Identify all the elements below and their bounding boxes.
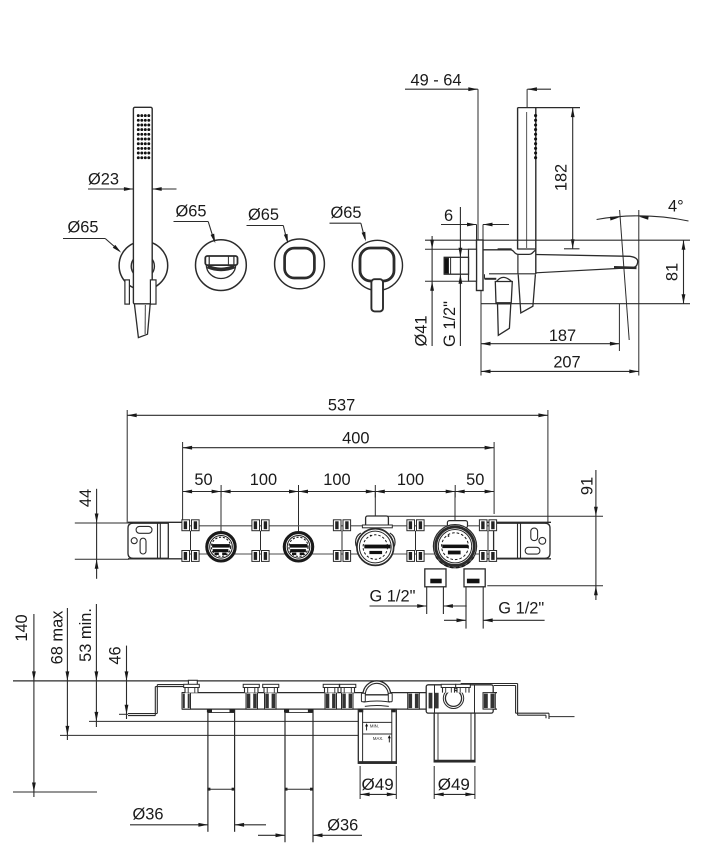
screw housing 2a top view xyxy=(243,684,259,692)
extension line wand axis xyxy=(526,89,528,107)
dimension Ø23 line left segment xyxy=(88,188,133,190)
extension line into valve at x=375.3 xyxy=(374,492,376,541)
valve 4 cartridge circle top view xyxy=(445,690,461,706)
dimension 44 arrow bottom outside xyxy=(95,559,99,569)
pipe clamp 3 on rail xyxy=(333,520,350,562)
extension line wall plane lower xyxy=(480,291,482,376)
spout tip vertical reference line xyxy=(638,210,640,376)
dimension 182 line xyxy=(572,108,574,249)
dimension 6 line left xyxy=(441,224,477,226)
dimension Ø23 line right segment xyxy=(152,188,176,190)
dimension 182 arrow top xyxy=(571,108,575,118)
dimension 49-64 line right xyxy=(527,88,551,90)
rough-in rail top edge left segment xyxy=(128,521,184,523)
label Ø65 trim2 underline xyxy=(247,225,284,227)
extension line plate front xyxy=(476,225,478,241)
spout axis line tilted 4 degrees xyxy=(620,210,630,340)
extension line 400 right xyxy=(493,442,495,514)
dimension Ø36 line pipe1 left xyxy=(130,824,208,826)
svg-text:400: 400 xyxy=(342,429,369,447)
pipe 1 collar mark right xyxy=(230,709,235,712)
dimension Ø36 line pipe2 left xyxy=(258,834,285,836)
trim 1 diverter escutcheon circle xyxy=(196,240,247,291)
dimension Ø36 line pipe1 right xyxy=(235,824,266,826)
box3 top collar mark left xyxy=(359,709,363,712)
pipe clamp 4 on rail xyxy=(407,520,424,562)
plaster guard box 3 bottom thick edge xyxy=(358,761,396,763)
valve 2 shut-off cartridge front view xyxy=(284,533,312,561)
screw housing 3b top view xyxy=(340,684,356,692)
row arrow right-pointing at tick 221.1 xyxy=(212,490,222,494)
right bracket screw hole xyxy=(539,537,546,544)
svg-text:50: 50 xyxy=(194,471,212,489)
trim 1 diverter knob bar xyxy=(205,256,237,265)
valve 4 mixer inner circle xyxy=(438,530,471,563)
valve 4 small slot bar xyxy=(448,551,461,555)
svg-text:Ø65: Ø65 xyxy=(248,206,279,224)
valve 3 small slot bar xyxy=(369,551,382,554)
svg-text:Ø65: Ø65 xyxy=(331,204,362,222)
extension line 187 xyxy=(618,304,620,351)
dimension 182 arrow bottom xyxy=(571,239,575,249)
extension line into valve at x=221 xyxy=(220,492,222,542)
extension line Ø49 v4 right xyxy=(474,766,476,799)
hand shower spray nozzle dots xyxy=(137,114,150,159)
valve 3 dome left ear xyxy=(361,693,365,702)
valve 4 mixer rosette outer circle xyxy=(433,525,476,568)
left Z bracket end tab xyxy=(188,680,197,686)
svg-text:G 1/2": G 1/2" xyxy=(370,588,416,606)
row tick line at x=298.5 xyxy=(298,485,300,498)
valve 3 dome top view xyxy=(363,681,391,695)
dimension 140 line xyxy=(33,614,35,797)
row tick line at x=455.2 xyxy=(454,485,456,498)
clamp 5 top view xyxy=(483,693,495,710)
screw housing 1 top view xyxy=(184,684,200,692)
rough-in rail bottom edge left segment xyxy=(128,558,184,560)
spout aerator slot xyxy=(614,266,637,269)
label Ø65 trim1 underline xyxy=(174,221,209,223)
svg-text:100: 100 xyxy=(323,471,350,489)
spout holder bracket top profile xyxy=(483,250,536,255)
rough-in guard rim top line xyxy=(366,515,603,517)
lever handle body bottom thick line xyxy=(496,302,512,304)
trim 2 escutcheon circle xyxy=(275,239,325,289)
G 1/2 inlet nipple xyxy=(444,257,468,274)
label Ø65 holder underline leader xyxy=(63,238,105,240)
bottom reference line for dimension 81 xyxy=(481,303,690,305)
clamp 2b top view xyxy=(265,693,277,710)
label Ø65 trim3 leader xyxy=(361,223,365,238)
extension line Ø49 v3 left xyxy=(359,766,361,799)
svg-text:G 1/2": G 1/2" xyxy=(441,301,459,347)
valve 4 cartridge outer circle top view xyxy=(443,688,463,708)
extension line into valve at x=298.5 xyxy=(298,492,300,542)
dimension Ø41 arrow top xyxy=(430,240,434,250)
hose pipe 1 top view xyxy=(207,709,209,832)
row arrow right-pointing at tick 298.5 xyxy=(289,490,299,494)
row arrow left-pointing at tick 298.5 xyxy=(299,490,309,494)
wand side view nozzle dots xyxy=(534,114,537,159)
182 dimension bottom reference tick xyxy=(564,248,580,250)
MAX level line in plaster guard xyxy=(363,733,392,735)
spout tip rounded end xyxy=(630,256,638,267)
wand lower tip side view xyxy=(518,275,535,313)
label Ø65 trim3 underline xyxy=(330,222,361,224)
dimension 400 line xyxy=(183,447,495,449)
svg-text:Ø41: Ø41 xyxy=(413,316,431,347)
valve 4 block inner line right xyxy=(474,685,476,713)
dimension 6 line right xyxy=(483,224,509,226)
holder bracket bottom edge xyxy=(489,273,536,275)
dimension Ø23 arrow right-pointing xyxy=(124,187,134,191)
valve 4 cold port block xyxy=(464,569,485,587)
left bracket divider line b xyxy=(159,523,161,558)
trim 1 diverter knob bowl semicircle xyxy=(206,265,235,279)
screw housing 3a top view xyxy=(323,684,339,692)
extension line rail top xyxy=(75,522,129,524)
mixer body ledge under spout xyxy=(485,278,497,280)
cold inlet pipe stub lines xyxy=(465,587,467,629)
Ø41 collar behind plate xyxy=(469,249,477,281)
pipe clamp 1 on rail xyxy=(182,520,199,562)
svg-text:Ø49: Ø49 xyxy=(438,775,470,794)
extension line 400 left xyxy=(182,442,184,530)
spout tube top edge xyxy=(536,255,630,257)
svg-text:46: 46 xyxy=(107,646,125,664)
valve 3 diverter cartridge outer circle xyxy=(357,529,394,566)
hand shower holder inner circle xyxy=(131,255,154,278)
pipe 1 coupling tick right xyxy=(232,788,235,791)
dimension 81 arrow top xyxy=(682,240,686,250)
dimension G1/2 cold line right xyxy=(483,619,544,621)
valve 3 collar line lower xyxy=(365,704,389,707)
svg-text:100: 100 xyxy=(397,471,424,489)
dimension 49-64 arrow at wand axis xyxy=(527,87,537,91)
valve4 block left hatch a xyxy=(429,693,433,709)
valve 3 diverter cartridge inner circle xyxy=(359,531,391,563)
trim 3 escutcheon circle xyxy=(352,240,402,290)
svg-text:6: 6 xyxy=(444,207,453,225)
dimension G1/2 hot line right xyxy=(443,605,466,607)
label Ø65 trim2 arrow xyxy=(284,234,290,244)
valve 3 dome inner arc xyxy=(365,683,388,695)
rough-in rail bottom edge right segment xyxy=(486,558,551,560)
dimension Ø36 line pipe2 right xyxy=(313,834,362,836)
lever handle side view stick xyxy=(498,304,511,336)
4 degree arrow left xyxy=(610,215,620,220)
dimension 91 line xyxy=(595,470,597,600)
label Ø65 holder leader diagonal xyxy=(105,239,119,252)
hand shower wand body xyxy=(133,107,152,304)
plaster guard box 4 bottom thick edge xyxy=(434,760,475,762)
pipe 1 coupling tick left xyxy=(207,788,210,791)
valve 3 diverter side lobes xyxy=(356,533,361,551)
valve 4 mixer ring xyxy=(436,527,475,566)
dimension Ø41 arrow bottom xyxy=(430,281,434,291)
dimension 91 arrow top outside xyxy=(594,507,598,517)
svg-text:68 max: 68 max xyxy=(49,610,67,665)
46 reference line bracket foot xyxy=(119,713,128,715)
valve 3 dome right ear xyxy=(388,693,392,702)
dimension 537 line xyxy=(127,414,548,416)
extension line collar bottom xyxy=(425,280,469,282)
svg-text:MIN.: MIN. xyxy=(370,723,379,728)
extension line Ø49 v4 left xyxy=(433,766,435,799)
right bracket foot extension line xyxy=(549,716,575,718)
right mounting bracket plate xyxy=(494,523,550,558)
dimension 91 arrow bottom outside xyxy=(594,586,598,596)
row arrow left-pointing at tick 375.3 xyxy=(375,490,385,494)
hand shower holder escutcheon outer circle xyxy=(119,241,168,290)
left bracket screw hole xyxy=(131,538,137,544)
svg-text:4°: 4° xyxy=(668,198,684,216)
dimension 81 line xyxy=(683,240,685,304)
trim 1 knob underside shadow arc xyxy=(208,267,235,270)
clamp 2a top view xyxy=(246,693,258,710)
valve 4 mixer top cap xyxy=(447,521,467,528)
hot inlet pipe stub lines xyxy=(426,587,428,614)
plaster guard box valve 3 xyxy=(358,709,396,763)
dimension G1/2 cold line left xyxy=(444,619,466,621)
spout tube bottom edge xyxy=(536,268,634,273)
dimension row 50/100/100/100/50 line xyxy=(183,491,495,493)
svg-text:Ø65: Ø65 xyxy=(176,203,207,221)
dimension 49-64 line left xyxy=(405,88,478,90)
svg-text:50: 50 xyxy=(466,471,484,489)
svg-text:187: 187 xyxy=(549,327,576,345)
clamp 3a top view xyxy=(325,693,337,710)
68 max wall plane line xyxy=(60,734,358,736)
dimension G1/2 hot line left xyxy=(370,605,427,607)
dimension 44 arrow top outside xyxy=(95,514,99,524)
pipe 2 collar mark right xyxy=(308,709,313,712)
right Z mounting bracket top view xyxy=(461,684,549,720)
140 reference line pipe coupling plane xyxy=(13,791,97,793)
wall escutcheon plate side view xyxy=(477,240,484,291)
svg-text:49 - 64: 49 - 64 xyxy=(411,72,462,90)
row tick line at x=221.1 xyxy=(220,485,222,498)
pipe clamp 2 on rail xyxy=(252,520,269,562)
hand shower holder clip arm right xyxy=(150,280,156,304)
row arrow left-pointing at tick 455.2 xyxy=(455,490,465,494)
wand holder clip front edge xyxy=(518,248,536,250)
svg-text:Ø36: Ø36 xyxy=(327,817,358,835)
left mounting bracket plate xyxy=(128,523,168,558)
row arrow leftmost xyxy=(183,490,193,494)
svg-text:MAX.: MAX. xyxy=(373,736,384,741)
svg-text:Ø49: Ø49 xyxy=(362,775,394,794)
svg-text:Ø23: Ø23 xyxy=(88,171,119,189)
dimension 49-64 arrow at wall plane xyxy=(468,87,478,91)
pipe 1 collar mark left xyxy=(207,709,212,712)
4 degree arrow right xyxy=(639,215,649,220)
dimension 68 max line xyxy=(66,608,68,740)
svg-text:44: 44 xyxy=(77,489,95,507)
lever handle side view body xyxy=(495,282,512,304)
left Z mounting bracket top view xyxy=(128,685,195,716)
screw housing valve4 b xyxy=(456,684,471,692)
valve 3 slot bar xyxy=(364,545,390,549)
label Ø65 holder leader arrow xyxy=(113,245,123,254)
rough-in rail inner bottom line xyxy=(182,553,491,555)
valve 4 hot port label strip xyxy=(430,579,441,584)
lever handle side view dome xyxy=(497,277,512,281)
extension line rail bottom xyxy=(75,558,129,560)
rail top view bottom edge xyxy=(182,708,497,710)
pipe 2 top collar line xyxy=(285,712,313,714)
reference line 91 bottom / outlet plane xyxy=(487,585,603,587)
screw housing 2b top view xyxy=(263,684,279,692)
extension line into valve at x=455 xyxy=(454,492,456,543)
rough-in rail inner top line xyxy=(182,525,491,527)
trim 3 inner squircle xyxy=(360,248,394,281)
label Ø65 trim3 arrow xyxy=(362,232,368,242)
label Ø65 trim1 arrow xyxy=(211,234,218,244)
row arrow right-pointing at tick 375.3 xyxy=(366,490,376,494)
hand shower wand side view body xyxy=(518,108,536,274)
holder bracket thick edge xyxy=(498,248,512,250)
right bracket horizontal slot xyxy=(525,547,540,554)
dimension G 1/2 inlet line xyxy=(459,207,461,346)
clamp 3b top view xyxy=(342,693,354,710)
53 min wall plane line xyxy=(89,720,358,722)
row tick line at x=375.3 xyxy=(374,485,376,498)
dimension Ø23 arrow left-pointing xyxy=(152,187,162,191)
svg-text:Ø65: Ø65 xyxy=(68,219,99,237)
svg-text:53 min.: 53 min. xyxy=(77,608,95,662)
label Ø65 trim1 leader xyxy=(208,222,214,241)
extension line collar top xyxy=(425,248,469,250)
svg-text:182: 182 xyxy=(553,164,571,191)
svg-text:91: 91 xyxy=(579,477,597,495)
svg-text:Ø36: Ø36 xyxy=(133,806,164,824)
pipe 2 coupling tick right xyxy=(310,788,313,791)
plaster guard box valve 4 xyxy=(434,713,475,762)
valve4 block left hatch b xyxy=(435,693,439,709)
svg-text:81: 81 xyxy=(664,263,682,281)
extension line 537 left xyxy=(126,410,128,523)
top reference line for dimension 81 xyxy=(425,239,690,241)
pipe 2 coupling tick left xyxy=(285,788,288,791)
dimension 187 line xyxy=(481,343,619,345)
valve 4 cold port label strip xyxy=(467,579,480,584)
row arrow rightmost xyxy=(485,490,495,494)
trim 2 inner squircle xyxy=(285,248,315,278)
dimension G1/2 arrow bottom xyxy=(459,274,463,284)
clamp 4 top view xyxy=(408,693,420,710)
pipe 1 coupling line xyxy=(208,788,235,790)
left bracket divider line a xyxy=(157,523,159,558)
extension line wall plane xyxy=(477,89,479,240)
hose pipe 2 top view xyxy=(284,709,286,842)
pipe clamp 5 on rail xyxy=(479,520,496,562)
svg-text:207: 207 xyxy=(553,354,580,372)
valve 3 diverter cap flange xyxy=(362,525,392,528)
hand shower wand tapered lower tip xyxy=(134,304,150,338)
valve 4 hot port block xyxy=(425,569,446,587)
pipe 2 collar mark left xyxy=(284,709,289,712)
MIN level line in plaster guard xyxy=(363,721,392,723)
dimension G1/2 arrow top xyxy=(459,248,463,258)
mixer body ledge edge xyxy=(484,274,486,279)
pipe 1 top collar line xyxy=(208,712,235,714)
extension line plate back xyxy=(482,225,484,241)
dimension 207 line xyxy=(481,370,639,372)
nipple thread relief line xyxy=(450,257,452,274)
dimension Ø49 line valve 3 xyxy=(360,793,396,795)
nipple black end cap xyxy=(444,258,448,274)
valve 4 block inner line left xyxy=(434,685,436,713)
rail top view top edge xyxy=(182,692,497,694)
left bracket horizontal slot xyxy=(136,526,152,533)
left bracket vertical slot xyxy=(140,538,146,554)
box3 top collar mark right xyxy=(391,709,395,712)
right bracket divider line b xyxy=(520,523,522,558)
dimension Ø49 line valve 4 xyxy=(434,793,475,795)
label Ø65 trim2 leader xyxy=(283,226,287,241)
4 degree angle arc xyxy=(597,216,689,221)
row arrow right-pointing at tick 455.2 xyxy=(446,490,456,494)
valve 4 body block top view xyxy=(426,685,493,713)
dimension 53 min line xyxy=(95,604,97,727)
svg-text:537: 537 xyxy=(328,396,355,414)
hand shower holder clip arm left xyxy=(125,280,129,304)
svg-text:G 1/2": G 1/2" xyxy=(498,600,544,618)
clamp 1 top view xyxy=(182,693,191,710)
right bracket vertical slot xyxy=(531,528,538,541)
row arrow left-pointing at tick 221.1 xyxy=(221,490,231,494)
rough-in rail top edge right segment xyxy=(486,521,551,523)
valve 3 diverter top cap xyxy=(366,516,389,526)
dimension Ø41 line xyxy=(431,236,433,346)
pipe 2 coupling line xyxy=(285,788,313,790)
valve 4 slot bar xyxy=(442,545,468,549)
dimension 44 line xyxy=(96,489,98,579)
svg-text:100: 100 xyxy=(250,471,277,489)
trim 3 lever handle xyxy=(371,279,383,311)
extension line 537 right xyxy=(547,410,549,523)
wand top edge extension to 182 dim xyxy=(518,107,580,109)
dimension 46 line xyxy=(126,646,128,719)
front mounting plane reference line xyxy=(13,680,461,682)
extension line Ø49 v3 right xyxy=(395,766,397,799)
wand side center line xyxy=(526,112,528,248)
svg-text:140: 140 xyxy=(13,614,31,641)
right bracket divider line a xyxy=(517,523,519,558)
valve 3 collar line upper xyxy=(363,701,390,702)
valve 1 shut-off cartridge front view xyxy=(207,533,235,561)
dimension 81 arrow bottom xyxy=(682,294,686,304)
screw housing valve4 a xyxy=(441,684,456,692)
